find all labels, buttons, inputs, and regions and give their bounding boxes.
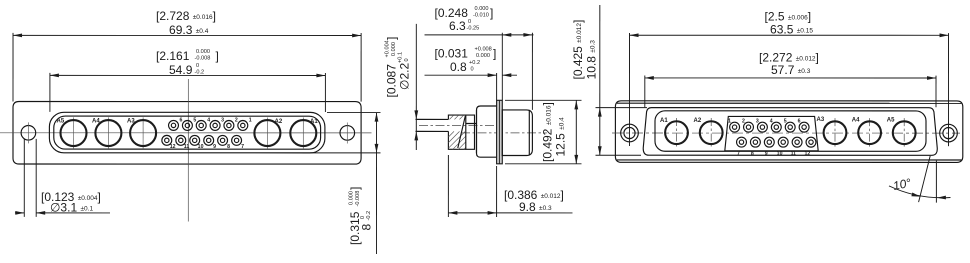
- contact A5: [60, 120, 86, 146]
- dim 57.7 line: [645, 77, 936, 79]
- svg-text:]: ]: [216, 49, 219, 63]
- dim 63.5 arrow left: [630, 33, 639, 37]
- dim 57.7 arrow left: [645, 76, 654, 80]
- contact 10: [190, 135, 200, 145]
- rear contact 10: [778, 137, 788, 147]
- svg-text:8: 8: [359, 223, 373, 230]
- svg-text:-0.2: -0.2: [195, 69, 205, 75]
- svg-text:7: 7: [737, 151, 740, 157]
- dim 10.8 arrow top: [598, 108, 602, 117]
- svg-text:0.8: 0.8: [450, 60, 467, 74]
- dim 57.7 extension line right: [935, 76, 937, 108]
- contact 6: [169, 120, 179, 130]
- dim 10.8 arrow bottom: [598, 146, 602, 155]
- rear contact A5 crosshair: [903, 118, 905, 148]
- dim 6.3 arrow left: [502, 33, 511, 37]
- rear contact A2 crosshair: [710, 118, 712, 148]
- insulator block outline: [448, 115, 474, 149]
- dim 54.9 line: [50, 74, 325, 76]
- svg-text:0.000: 0.000: [476, 53, 490, 59]
- svg-text:12: 12: [804, 151, 810, 157]
- rear contact 1: [730, 122, 740, 132]
- svg-text:-0.008: -0.008: [355, 191, 361, 207]
- flange outline left view: [13, 102, 361, 165]
- shell front block: [476, 106, 496, 157]
- rear contact A3: [824, 121, 847, 144]
- dim 6.3 extension line left: [501, 33, 503, 101]
- svg-text:0: 0: [360, 216, 366, 219]
- svg-text:A1: A1: [660, 118, 668, 124]
- dim 69.3 line: [13, 34, 361, 36]
- svg-text:A2: A2: [275, 119, 283, 125]
- svg-text:8: 8: [227, 144, 230, 150]
- horizontal centerline left view: [0, 132, 371, 134]
- angle slant line: [919, 156, 931, 202]
- svg-text:∅2.2: ∅2.2: [398, 63, 412, 90]
- mounting hole left crosshair: [27, 122, 29, 143]
- contact 7: [232, 135, 242, 145]
- contact bore line: [466, 122, 477, 124]
- rear contact 3: [757, 122, 767, 132]
- svg-text:]: ]: [348, 187, 362, 190]
- dia 2.2 dim line: [415, 24, 417, 150]
- svg-text:0.000: 0.000: [391, 42, 397, 56]
- dim 0.8 line left part: [425, 74, 497, 76]
- svg-text:+0.008: +0.008: [475, 46, 492, 52]
- contact A1 crosshair: [302, 117, 304, 148]
- svg-text:0: 0: [196, 63, 199, 69]
- dim 10.8 dim line: [599, 5, 601, 155]
- dim 12.5 line: [575, 100, 577, 164]
- contact A4 crosshair: [107, 117, 109, 148]
- dim 9.8 extension line left: [447, 155, 449, 217]
- svg-text:-0.010: -0.010: [473, 12, 489, 18]
- mounting hole left: [21, 126, 36, 141]
- dim 12.5 arrow top: [574, 100, 578, 109]
- rear contact 12: [806, 137, 816, 147]
- dim 9.8 arrow right: [488, 211, 497, 215]
- rear contact 9: [764, 137, 774, 147]
- dia 2.2 arrow lower: [414, 131, 418, 140]
- svg-text:-0.2: -0.2: [366, 211, 372, 221]
- D-shell outer outline: [49, 112, 325, 153]
- contact 4: [196, 120, 206, 130]
- rear shell outer outline: [643, 108, 937, 156]
- contact 8: [218, 135, 228, 145]
- svg-text:11: 11: [791, 151, 797, 157]
- mounting hole rear left outer: [621, 124, 639, 142]
- rear contact 6: [799, 122, 809, 132]
- dim 12.5 extension line bottom: [505, 163, 582, 165]
- mounting hole rear right inner: [943, 127, 954, 138]
- dia 3.1 arrow right: [36, 211, 45, 215]
- dim 9.8 arrow left: [448, 211, 457, 215]
- contact A1: [290, 120, 316, 146]
- svg-text:A4: A4: [92, 119, 100, 125]
- dim 12.5 extension line top: [505, 99, 582, 101]
- dim 0.8 extension line left: [496, 73, 498, 100]
- svg-text:6: 6: [180, 118, 183, 124]
- rear contact 5: [785, 122, 795, 132]
- dim 8 line: [375, 113, 377, 254]
- svg-text:A5: A5: [57, 119, 65, 125]
- svg-text:0: 0: [471, 66, 474, 72]
- dim 54.9 extension line right: [324, 73, 326, 112]
- dim 9.8 line: [448, 212, 572, 214]
- dim 12.5 arrow bottom: [574, 155, 578, 164]
- svg-text:8: 8: [751, 151, 754, 157]
- svg-text:3: 3: [221, 118, 224, 124]
- contact 12: [162, 135, 172, 145]
- dim 54.9 arrow left: [50, 74, 59, 78]
- flange section (edge-on, hatched): [497, 100, 503, 164]
- signal contact trapezoid: [725, 116, 818, 150]
- insulator divider line: [465, 115, 467, 149]
- svg-text:A5: A5: [887, 118, 895, 124]
- main centerline middle view: [461, 132, 547, 134]
- contact 2: [224, 120, 234, 130]
- rear contact 4: [771, 122, 781, 132]
- svg-text:11: 11: [184, 144, 190, 150]
- svg-text:6.3: 6.3: [449, 19, 466, 33]
- dim 54.9 arrow right: [316, 74, 325, 78]
- svg-text:[0.031: [0.031: [435, 46, 469, 60]
- dim 0.8 arrow right: [502, 73, 511, 77]
- svg-text:]: ]: [385, 37, 399, 40]
- contact A2 crosshair: [266, 117, 268, 148]
- rear contact 2: [744, 122, 754, 132]
- svg-text:[0.087: [0.087: [385, 64, 399, 98]
- svg-text:5: 5: [784, 118, 787, 124]
- dim 8 arrow bottom: [375, 144, 379, 153]
- rear shell inner outline: [655, 111, 926, 151]
- mounting hole right: [340, 126, 355, 141]
- svg-text:4: 4: [770, 118, 773, 124]
- dim 69.3 extension line right: [360, 33, 362, 102]
- rear contact 8: [750, 137, 760, 147]
- svg-text:-0.25: -0.25: [467, 25, 480, 31]
- svg-text:+0.004: +0.004: [385, 40, 391, 57]
- contact A3 crosshair: [142, 117, 144, 148]
- dim 69.3 extension line left: [12, 33, 14, 102]
- rear contact 11: [792, 137, 802, 147]
- horizontal centerline rear view: [612, 132, 960, 134]
- svg-text:+0.1: +0.1: [398, 52, 404, 63]
- svg-text:]: ]: [490, 6, 493, 20]
- svg-text:10: 10: [198, 144, 204, 150]
- svg-text:[2.161: [2.161: [156, 49, 190, 63]
- svg-text:0.000: 0.000: [475, 6, 489, 12]
- svg-text:2: 2: [742, 118, 745, 124]
- contact A5 crosshair: [72, 117, 74, 148]
- svg-text:A3: A3: [817, 117, 825, 123]
- dim 57.7 arrow right: [927, 76, 936, 80]
- dia 3.1 extension line right: [35, 139, 37, 217]
- dim 8 extension line top: [327, 112, 381, 114]
- dim 63.5 line: [630, 34, 949, 36]
- svg-text:7: 7: [241, 144, 244, 150]
- svg-text:]: ]: [493, 47, 496, 61]
- contact pin bottom line: [416, 130, 449, 132]
- dim 0.8 line right part: [502, 74, 517, 76]
- dim 9.8 extension line right: [496, 166, 498, 217]
- contact 5: [182, 120, 192, 130]
- flange outline rear view: [615, 101, 962, 163]
- svg-text:10: 10: [777, 151, 783, 157]
- mounting hole rear right outer: [940, 124, 958, 142]
- svg-text:9: 9: [213, 144, 216, 150]
- svg-text:0.000: 0.000: [348, 191, 354, 205]
- dim 0.8 arrow left: [488, 73, 497, 77]
- angle reference vertical line: [935, 161, 937, 203]
- rear plate lower edge line: [617, 159, 962, 161]
- rear contact A4: [858, 121, 881, 144]
- dim 6.3 extension line right: [531, 33, 533, 110]
- svg-text:1: 1: [249, 118, 252, 124]
- svg-text:5: 5: [193, 118, 196, 124]
- svg-text:4: 4: [207, 118, 210, 124]
- dim 63.5 arrow right: [940, 33, 949, 37]
- contact 9: [204, 135, 214, 145]
- svg-text:1: 1: [728, 118, 731, 124]
- dim 10.8 extension line bottom: [595, 154, 641, 156]
- rear contact A1: [665, 121, 688, 144]
- vertical centerline left view: [187, 79, 189, 222]
- dia 3.1 dim line: [36, 212, 110, 214]
- svg-text:54.9: 54.9: [169, 63, 193, 77]
- svg-text:+0.2: +0.2: [469, 60, 480, 66]
- rear contact A5: [893, 121, 916, 144]
- dim 8 arrow top: [375, 113, 379, 122]
- dim 8 extension line bottom: [310, 152, 381, 154]
- insulator taper line: [458, 116, 466, 148]
- contact A2: [254, 120, 280, 146]
- dim 63.5 extension line right: [947, 33, 949, 146]
- angle arrow on slant line: [911, 193, 920, 197]
- dim 69.3 arrow left: [13, 34, 22, 38]
- svg-text:A1: A1: [310, 119, 318, 125]
- dia 3.1 arrow left: [15, 211, 24, 215]
- rear contact A4 crosshair: [869, 118, 871, 148]
- svg-text:0: 0: [468, 19, 471, 25]
- dia 3.1 extension line left: [23, 139, 25, 217]
- insulator hatching: [448, 115, 465, 149]
- rear contact A3 crosshair: [834, 118, 836, 148]
- svg-text:A4: A4: [852, 118, 860, 124]
- contact A3: [130, 120, 156, 146]
- svg-text:9: 9: [765, 151, 768, 157]
- dim 69.3 arrow right: [352, 34, 361, 38]
- rear contact 7: [737, 137, 747, 147]
- shell front inner edge: [475, 110, 477, 153]
- dia 3.1 dim line tail left: [15, 212, 24, 214]
- contact 3: [210, 120, 220, 130]
- svg-text:A3: A3: [127, 119, 135, 125]
- mounting hole rear right crosshair: [947, 122, 949, 147]
- mounting hole rear left inner: [624, 127, 635, 138]
- svg-text:0: 0: [404, 58, 410, 61]
- dim 57.7 extension line left: [644, 76, 646, 108]
- angle arc: [889, 186, 951, 198]
- rear contact A2: [700, 121, 723, 144]
- D-shell inner outline: [54, 116, 321, 149]
- dim 6.3 arrow right: [523, 33, 532, 37]
- shell rear inner line: [528, 110, 530, 156]
- contact 1: [238, 120, 248, 130]
- svg-text:[0.248: [0.248: [435, 6, 469, 20]
- contact 11: [176, 135, 186, 145]
- svg-text:3: 3: [756, 118, 759, 124]
- dim 63.5 extension line left: [628, 33, 630, 146]
- svg-text:12: 12: [170, 144, 176, 150]
- svg-text:6: 6: [798, 118, 801, 124]
- svg-text:2: 2: [235, 118, 238, 124]
- dim 6.3 line: [425, 34, 534, 36]
- contact pin top line: [416, 118, 449, 120]
- svg-text:0.000: 0.000: [196, 49, 210, 55]
- shell rear body: [502, 110, 532, 156]
- dia 2.2 arrow upper: [414, 110, 418, 119]
- pin centerline: [419, 124, 494, 126]
- dim 10.8 extension line top: [596, 107, 648, 109]
- dim 54.9 extension line left: [49, 73, 51, 112]
- mounting hole right crosshair: [346, 122, 348, 143]
- rear plate upper edge line: [617, 102, 962, 104]
- rear contact A1 crosshair: [675, 118, 677, 148]
- svg-text:A2: A2: [694, 118, 702, 124]
- contact A4: [95, 120, 121, 146]
- angle arrow on vertical line: [937, 196, 946, 200]
- svg-text:-0.008: -0.008: [195, 55, 211, 61]
